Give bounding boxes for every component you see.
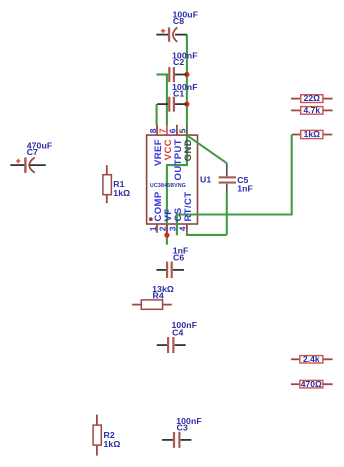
svg-text:C4: C4 — [172, 327, 183, 337]
svg-text:8: 8 — [148, 128, 158, 133]
svg-text:RT/CT: RT/CT — [183, 192, 194, 222]
svg-text:5: 5 — [178, 128, 188, 133]
svg-text:1: 1 — [148, 226, 158, 231]
svg-text:GND: GND — [183, 139, 194, 161]
svg-text:C2: C2 — [173, 57, 184, 67]
svg-text:C6: C6 — [173, 252, 184, 262]
svg-text:U1: U1 — [200, 175, 211, 185]
svg-text:4.7k: 4.7k — [304, 105, 321, 115]
svg-text:7: 7 — [158, 128, 168, 133]
svg-text:C7: C7 — [27, 147, 38, 157]
svg-text:22Ω: 22Ω — [304, 93, 320, 103]
svg-text:1kΩ: 1kΩ — [104, 439, 121, 449]
svg-text:UC3845BVNG: UC3845BVNG — [150, 183, 186, 189]
svg-text:3: 3 — [168, 226, 178, 231]
svg-text:C3: C3 — [177, 423, 188, 433]
svg-text:C8: C8 — [173, 16, 184, 26]
svg-text:2: 2 — [158, 226, 168, 231]
svg-text:6: 6 — [168, 128, 178, 133]
svg-text:C1: C1 — [173, 89, 184, 99]
svg-text:470Ω: 470Ω — [301, 379, 322, 389]
svg-text:4: 4 — [178, 226, 188, 231]
svg-text:1nF: 1nF — [237, 184, 253, 194]
svg-text:1kΩ: 1kΩ — [304, 129, 320, 139]
svg-text:2.4k: 2.4k — [303, 354, 320, 364]
svg-text:R4: R4 — [153, 291, 164, 301]
svg-text:1kΩ: 1kΩ — [113, 188, 130, 198]
